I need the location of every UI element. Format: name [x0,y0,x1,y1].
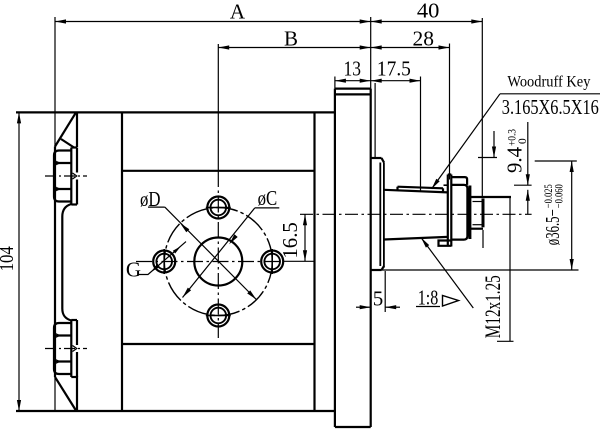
svg-text:40: 40 [417,0,440,23]
svg-text:ø36.5−: ø36.5− [543,209,564,245]
svg-text:9.4: 9.4 [503,147,527,173]
svg-text:M12x1.25: M12x1.25 [480,275,505,338]
svg-text:Woodruff Key: Woodruff Key [507,74,590,91]
svg-text:0: 0 [517,138,529,144]
svg-text:28: 28 [413,27,435,51]
svg-text:G: G [126,258,141,282]
svg-text:5: 5 [373,287,384,311]
svg-text:17.5: 17.5 [377,57,411,81]
svg-text:B: B [284,27,298,51]
svg-text:−0.060: −0.060 [554,184,566,208]
svg-text:øD: øD [140,187,161,211]
svg-text:3.165X6.5X16: 3.165X6.5X16 [502,95,599,119]
svg-text:A: A [230,0,246,24]
svg-text:13: 13 [344,57,362,81]
svg-text:104: 104 [0,246,18,271]
svg-text:16.5: 16.5 [278,222,302,259]
svg-text:øC: øC [258,186,278,210]
